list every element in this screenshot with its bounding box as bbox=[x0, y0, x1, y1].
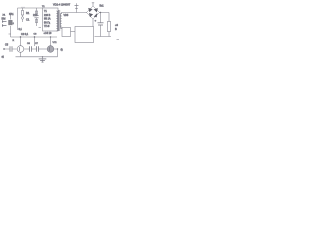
svg-text:Bz1: Bz1 bbox=[100, 5, 105, 8]
box B bbox=[75, 27, 94, 43]
wire VT1 down to rail bbox=[20, 52, 22, 57]
svg-text:SA1: SA1 bbox=[9, 13, 14, 16]
transistor VT2 circle bbox=[47, 46, 54, 53]
wire secondary top to bridge y12.5 bbox=[62, 13, 87, 15]
svg-text:В: В bbox=[115, 27, 117, 31]
wire bottom rail right y36.5 bbox=[95, 36, 112, 38]
wire caps to VT2 bbox=[39, 48, 48, 50]
node drop x34.5 bbox=[34, 36, 35, 37]
wire VT2 to corner bbox=[54, 49, 58, 57]
wire bottom rail y56.8 bbox=[16, 56, 58, 58]
input cap C5 bbox=[4, 46, 17, 51]
wire box A to box B bbox=[71, 31, 76, 33]
svg-text:9В 1А: 9В 1А bbox=[44, 18, 51, 21]
svg-text:а): а) bbox=[2, 55, 4, 59]
input terminal left bbox=[3, 48, 5, 50]
connector ticks on top rail bbox=[22, 7, 24, 8]
transformer core bbox=[59, 10, 60, 31]
node VT2 right bbox=[57, 48, 58, 49]
resistor R1 vertical with dot bbox=[21, 8, 23, 22]
svg-text:ТП-8: ТП-8 bbox=[44, 25, 50, 28]
svg-text:50 Гц: 50 Гц bbox=[44, 21, 51, 24]
svg-text:VD5: VD5 bbox=[64, 14, 69, 17]
drop from rail at x34.5 bbox=[34, 37, 36, 46]
svg-text:C2 0,1: C2 0,1 bbox=[21, 33, 29, 36]
tick above corner left bbox=[9, 33, 12, 35]
input terminals X1 bbox=[2, 20, 7, 26]
wire module left edge bbox=[17, 8, 19, 30]
svg-text:220: 220 bbox=[33, 13, 38, 17]
microphone BM1 body bbox=[9, 20, 13, 25]
wire output top y12.5 bbox=[100, 13, 110, 22]
wire left vertical bbox=[10, 13, 12, 38]
transformer winding primary bbox=[57, 11, 58, 31]
node at cap branch bbox=[100, 12, 101, 13]
tiny mark right edge bbox=[117, 39, 120, 41]
capacitor pair mid2 bbox=[37, 46, 39, 51]
wire secondary bottom to box A bbox=[61, 27, 64, 29]
ground symbol bbox=[39, 57, 47, 63]
tiny dash left of box bottom bbox=[39, 27, 42, 29]
node drop VT2 bbox=[50, 36, 51, 37]
VT2 inner bar bbox=[49, 47, 51, 51]
capacitor pair mid1 bbox=[30, 46, 32, 51]
wire rail bottom-left horizontal y37 bbox=[11, 36, 58, 38]
resistor R5 load vertical bbox=[107, 22, 110, 37]
bridge rectifier VD1-VD4 diamond bbox=[87, 6, 100, 19]
fuse FU1 vertical on top wire bbox=[76, 3, 78, 12]
wire between caps bbox=[24, 48, 37, 50]
transistor VT1 circle bbox=[17, 46, 24, 53]
svg-text:ВМ: ВМ bbox=[2, 17, 6, 21]
node on rail bbox=[20, 36, 21, 37]
svg-text:VD1-4 1N4007: VD1-4 1N4007 bbox=[53, 3, 71, 7]
drop wire to VT2 bbox=[50, 37, 52, 46]
wire bridge bottom vertex down bbox=[92, 19, 94, 27]
drop wire to VT1 bbox=[20, 37, 22, 46]
box A bbox=[62, 28, 71, 37]
terminal stub above bridge top vertex bbox=[92, 3, 94, 6]
transformer T1 box bbox=[43, 8, 59, 31]
VT1 inner bar bbox=[19, 47, 21, 51]
svg-text:C1: C1 bbox=[26, 18, 30, 22]
svg-text:R1: R1 bbox=[26, 11, 30, 15]
transformer winding secondary bbox=[60, 14, 61, 29]
node on rail 2 bbox=[34, 36, 35, 37]
node ground junction bbox=[42, 56, 43, 57]
svg-text:220 В: 220 В bbox=[44, 14, 51, 17]
T1 internal labels bbox=[44, 10, 51, 28]
svg-text:б): б) bbox=[61, 49, 63, 52]
svg-text:+C4 10: +C4 10 bbox=[44, 32, 52, 35]
node drop VT1 bbox=[20, 36, 21, 37]
wire top rail y8 bbox=[18, 7, 43, 9]
capacitor C2 vertical bbox=[34, 8, 38, 26]
capacitor C8 electrolytic with + bbox=[95, 13, 104, 37]
